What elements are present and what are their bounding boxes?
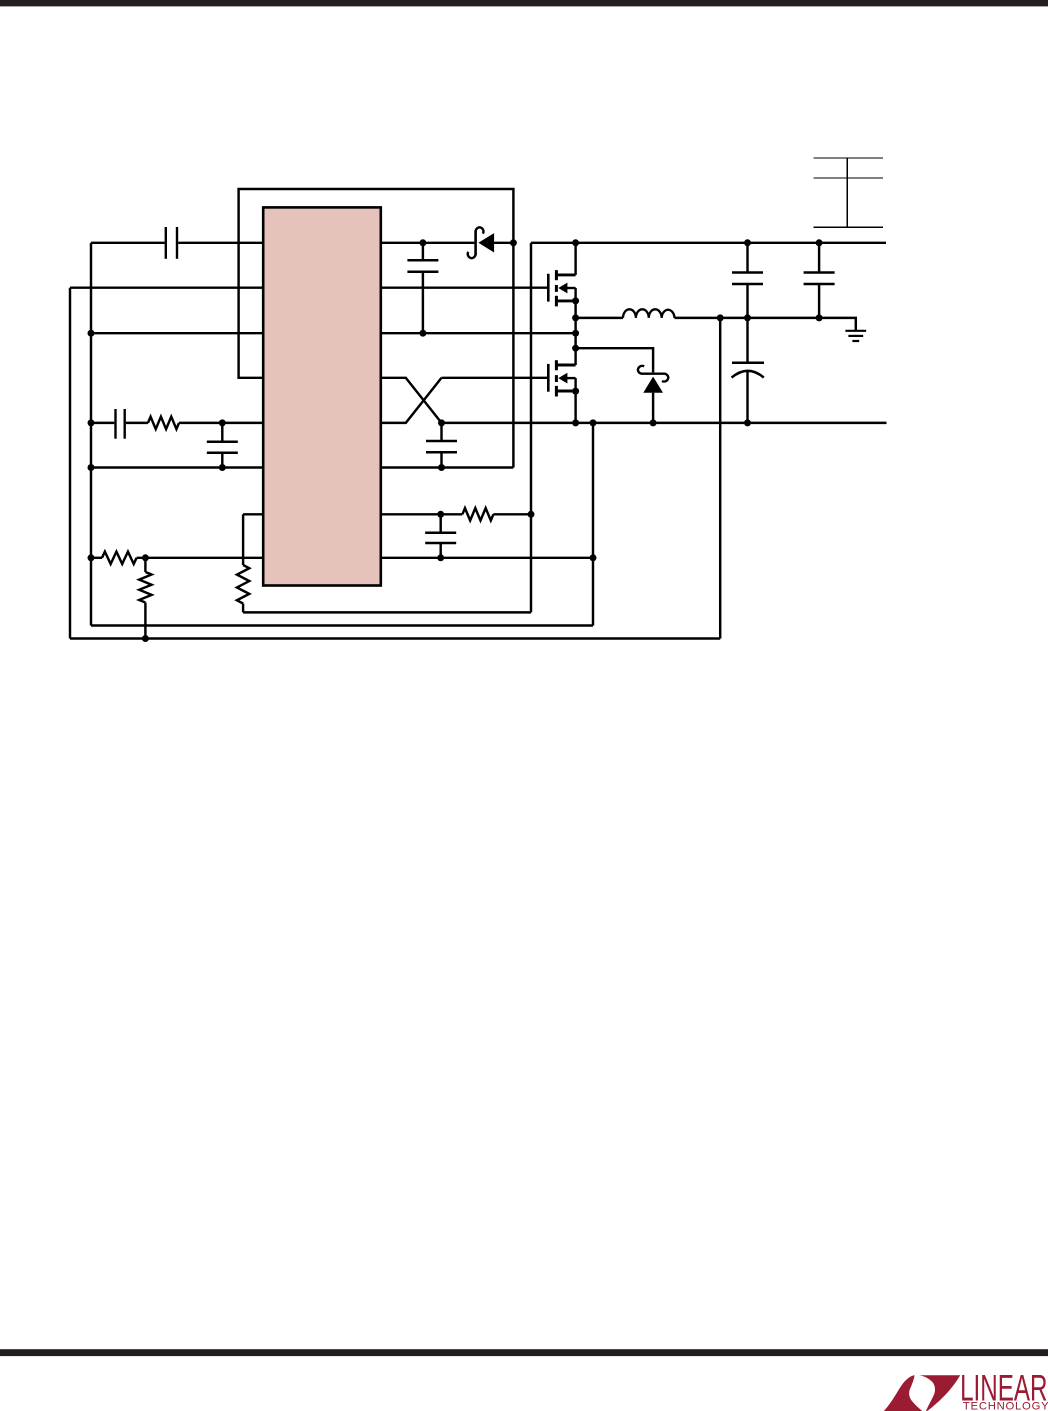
wire (Q2 source down to row5 rail) xyxy=(574,391,576,423)
resistor R3 (vertical at x145.4) xyxy=(144,558,146,572)
svg-text:TECHNOLOGY: TECHNOLOGY xyxy=(963,1401,1048,1411)
node (D1 cathode on right vertical) xyxy=(510,239,517,246)
wire (vertical x720 down to outer bottom wire) xyxy=(719,318,721,639)
node (C3 bottom on row6) xyxy=(219,464,226,471)
capacitor C3 (x=222.3, row5 to row6) xyxy=(221,423,223,441)
node (SW node at inductor tap) xyxy=(572,314,579,321)
resistor R2 (series, row5 left) xyxy=(148,417,179,429)
wire (row6 right: IC to box vertical) xyxy=(381,466,514,468)
wire (Q1 drain up to row1 rail) xyxy=(574,243,576,275)
node (row1 rail at Q1 drain? C7 top) xyxy=(744,239,751,246)
wire (inner left vertical x91) xyxy=(90,243,92,626)
wire (row4 right: cross to Q2 gate) xyxy=(442,377,548,379)
capacitor C1 (series, row1 left) xyxy=(165,227,167,259)
transistor Q2 (bottom N-MOSFET) xyxy=(547,364,550,392)
capacitor C8 (x=819.1, row1 to inductor rail) xyxy=(818,243,820,272)
wire (row2 right: IC to Q1 gate) xyxy=(381,286,547,288)
wire (row6 left) xyxy=(91,466,263,468)
wire (vertical x593 from row5 to bottom corner) xyxy=(592,423,594,626)
wire (row8 left stub) xyxy=(91,557,102,559)
resistor R1 (series, row8 left) xyxy=(102,552,137,564)
ground (output) xyxy=(845,330,866,332)
header rule bar xyxy=(0,0,1048,6)
node (cross junction on row5) xyxy=(438,419,445,426)
wire (row7 left stub) xyxy=(243,513,263,515)
node (inductor rail at x720) xyxy=(717,314,724,321)
wire (row2 left) xyxy=(70,286,263,288)
wire (routing: IC left pin row4 up over IC to right vertical, down to row6) xyxy=(239,189,514,468)
wire (R1 to IC left pin row8) xyxy=(137,557,264,559)
node (inductor rail at C8) xyxy=(816,314,823,321)
wire (C2 to R2) xyxy=(126,422,148,424)
wire (row1 top rail right: corner x531 to x886) xyxy=(531,242,886,244)
node (Q2 source on row5 rail) xyxy=(572,419,579,426)
resistor R5 (vertical at x243.1) xyxy=(237,565,249,604)
wire (row5 from IC, crossing up to row4) xyxy=(381,378,442,423)
node (row8 on x593 vertical) xyxy=(590,554,597,561)
wire (inductor to output corner, then down to ground) xyxy=(675,318,856,330)
node (row5 on left vertical) xyxy=(88,419,95,426)
wire (row3 right: IC to SW vertical) xyxy=(381,332,576,334)
node (row3 at SW vertical) xyxy=(572,330,579,337)
wire (C1 to IC left pin row1) xyxy=(178,242,263,244)
wire (outer bottom wire y638) xyxy=(70,637,720,639)
node (row3 on left vertical) xyxy=(88,330,95,337)
node (row8 at R3 top) xyxy=(142,554,149,561)
op-amp U1 (controller IC block) xyxy=(263,207,381,585)
capacitor C5 (x=441.5, row5 to row6) xyxy=(440,423,442,441)
node (row6 on left vertical) xyxy=(88,464,95,471)
node (Q1 drain on row1 rail) xyxy=(572,239,579,246)
node (C6 bottom on row8) xyxy=(437,554,444,561)
node (row7 at C6 top) xyxy=(437,511,444,518)
node (row5 at C3 top) xyxy=(219,419,226,426)
wire (x243 vertical from row7) xyxy=(242,514,244,565)
node (C4 bottom on row3) xyxy=(419,330,426,337)
wire (R5 bottom to corner) xyxy=(242,604,244,613)
table frame (empty) xyxy=(814,158,884,227)
wire (vertical x531 from row1 corner to bottom corner) xyxy=(530,243,532,613)
capacitor C2 (series, row5 left) xyxy=(114,409,116,439)
wire (bottom wire y612) xyxy=(243,611,531,613)
wire (R4 to x531 vertical) xyxy=(493,513,531,515)
capacitor C7 (x=747.5, row1 to inductor rail) xyxy=(746,243,748,272)
node (row1 rail at C8 top) xyxy=(816,239,823,246)
node (row8 on left vertical) xyxy=(88,554,95,561)
wire (row4 from IC, crossing down to row5) xyxy=(381,378,442,423)
node (row7 on x531 vertical) xyxy=(528,511,535,518)
node A (boost cap junction) xyxy=(419,239,426,246)
resistor R4 (series, row7 right) xyxy=(462,508,493,520)
wire (IC right pin row1 to node A) xyxy=(381,242,475,244)
node (Q1 source contact) xyxy=(572,297,579,304)
Linear Technology logo mark (LT swoosh) xyxy=(882,1375,960,1411)
wire (row1 left segment from left vertical to C1) xyxy=(91,242,165,244)
node (Q2 source contact) xyxy=(572,388,579,395)
wire (outer left vertical x70) xyxy=(69,288,71,639)
wire (bottom wire y625) xyxy=(91,624,593,626)
wire (SW to inductor) xyxy=(576,317,623,319)
node (C9 bottom on row5 rail) xyxy=(744,419,751,426)
capacitor C4 (x=422.9, row1 to row3) xyxy=(422,243,424,260)
capacitor C9 (polarized, x=747.5, inductor rail to row5) xyxy=(746,318,748,362)
node (row5 on x593 vertical) xyxy=(590,419,597,426)
wire (row5 right rail to x886) xyxy=(442,422,887,424)
diode D1 (Schottky, row1, pointing left) xyxy=(474,231,477,256)
node (SW tap for bottom diode) xyxy=(572,345,579,352)
wire (row7 right: IC to R4) xyxy=(381,513,463,515)
node (R3 bottom on bottom wire) xyxy=(142,635,149,642)
wire (row8 right: IC to x593 vertical) xyxy=(381,557,593,559)
diode DB (bottom Schottky, pointing up) xyxy=(641,373,665,375)
wire (SW to diode DB) xyxy=(576,348,654,372)
transistor Q1 (top N-MOSFET) xyxy=(547,274,550,302)
capacitor C6 (x=440.7, row7 to row8) xyxy=(439,514,441,532)
node (DB anode on row5 rail) xyxy=(650,419,657,426)
node (C5 bottom on row6) xyxy=(438,464,445,471)
wire (row3 left) xyxy=(91,332,263,334)
node (inductor rail at C7/C9) xyxy=(744,314,751,321)
wire (SW vertical: Q1 source down to Q2 drain) xyxy=(574,301,576,365)
wire (row5 left segment) xyxy=(91,422,114,424)
wire (R2 to IC left pin row5) xyxy=(179,422,263,424)
inductor L1 xyxy=(623,309,675,318)
footer rule bar xyxy=(0,1349,1048,1356)
